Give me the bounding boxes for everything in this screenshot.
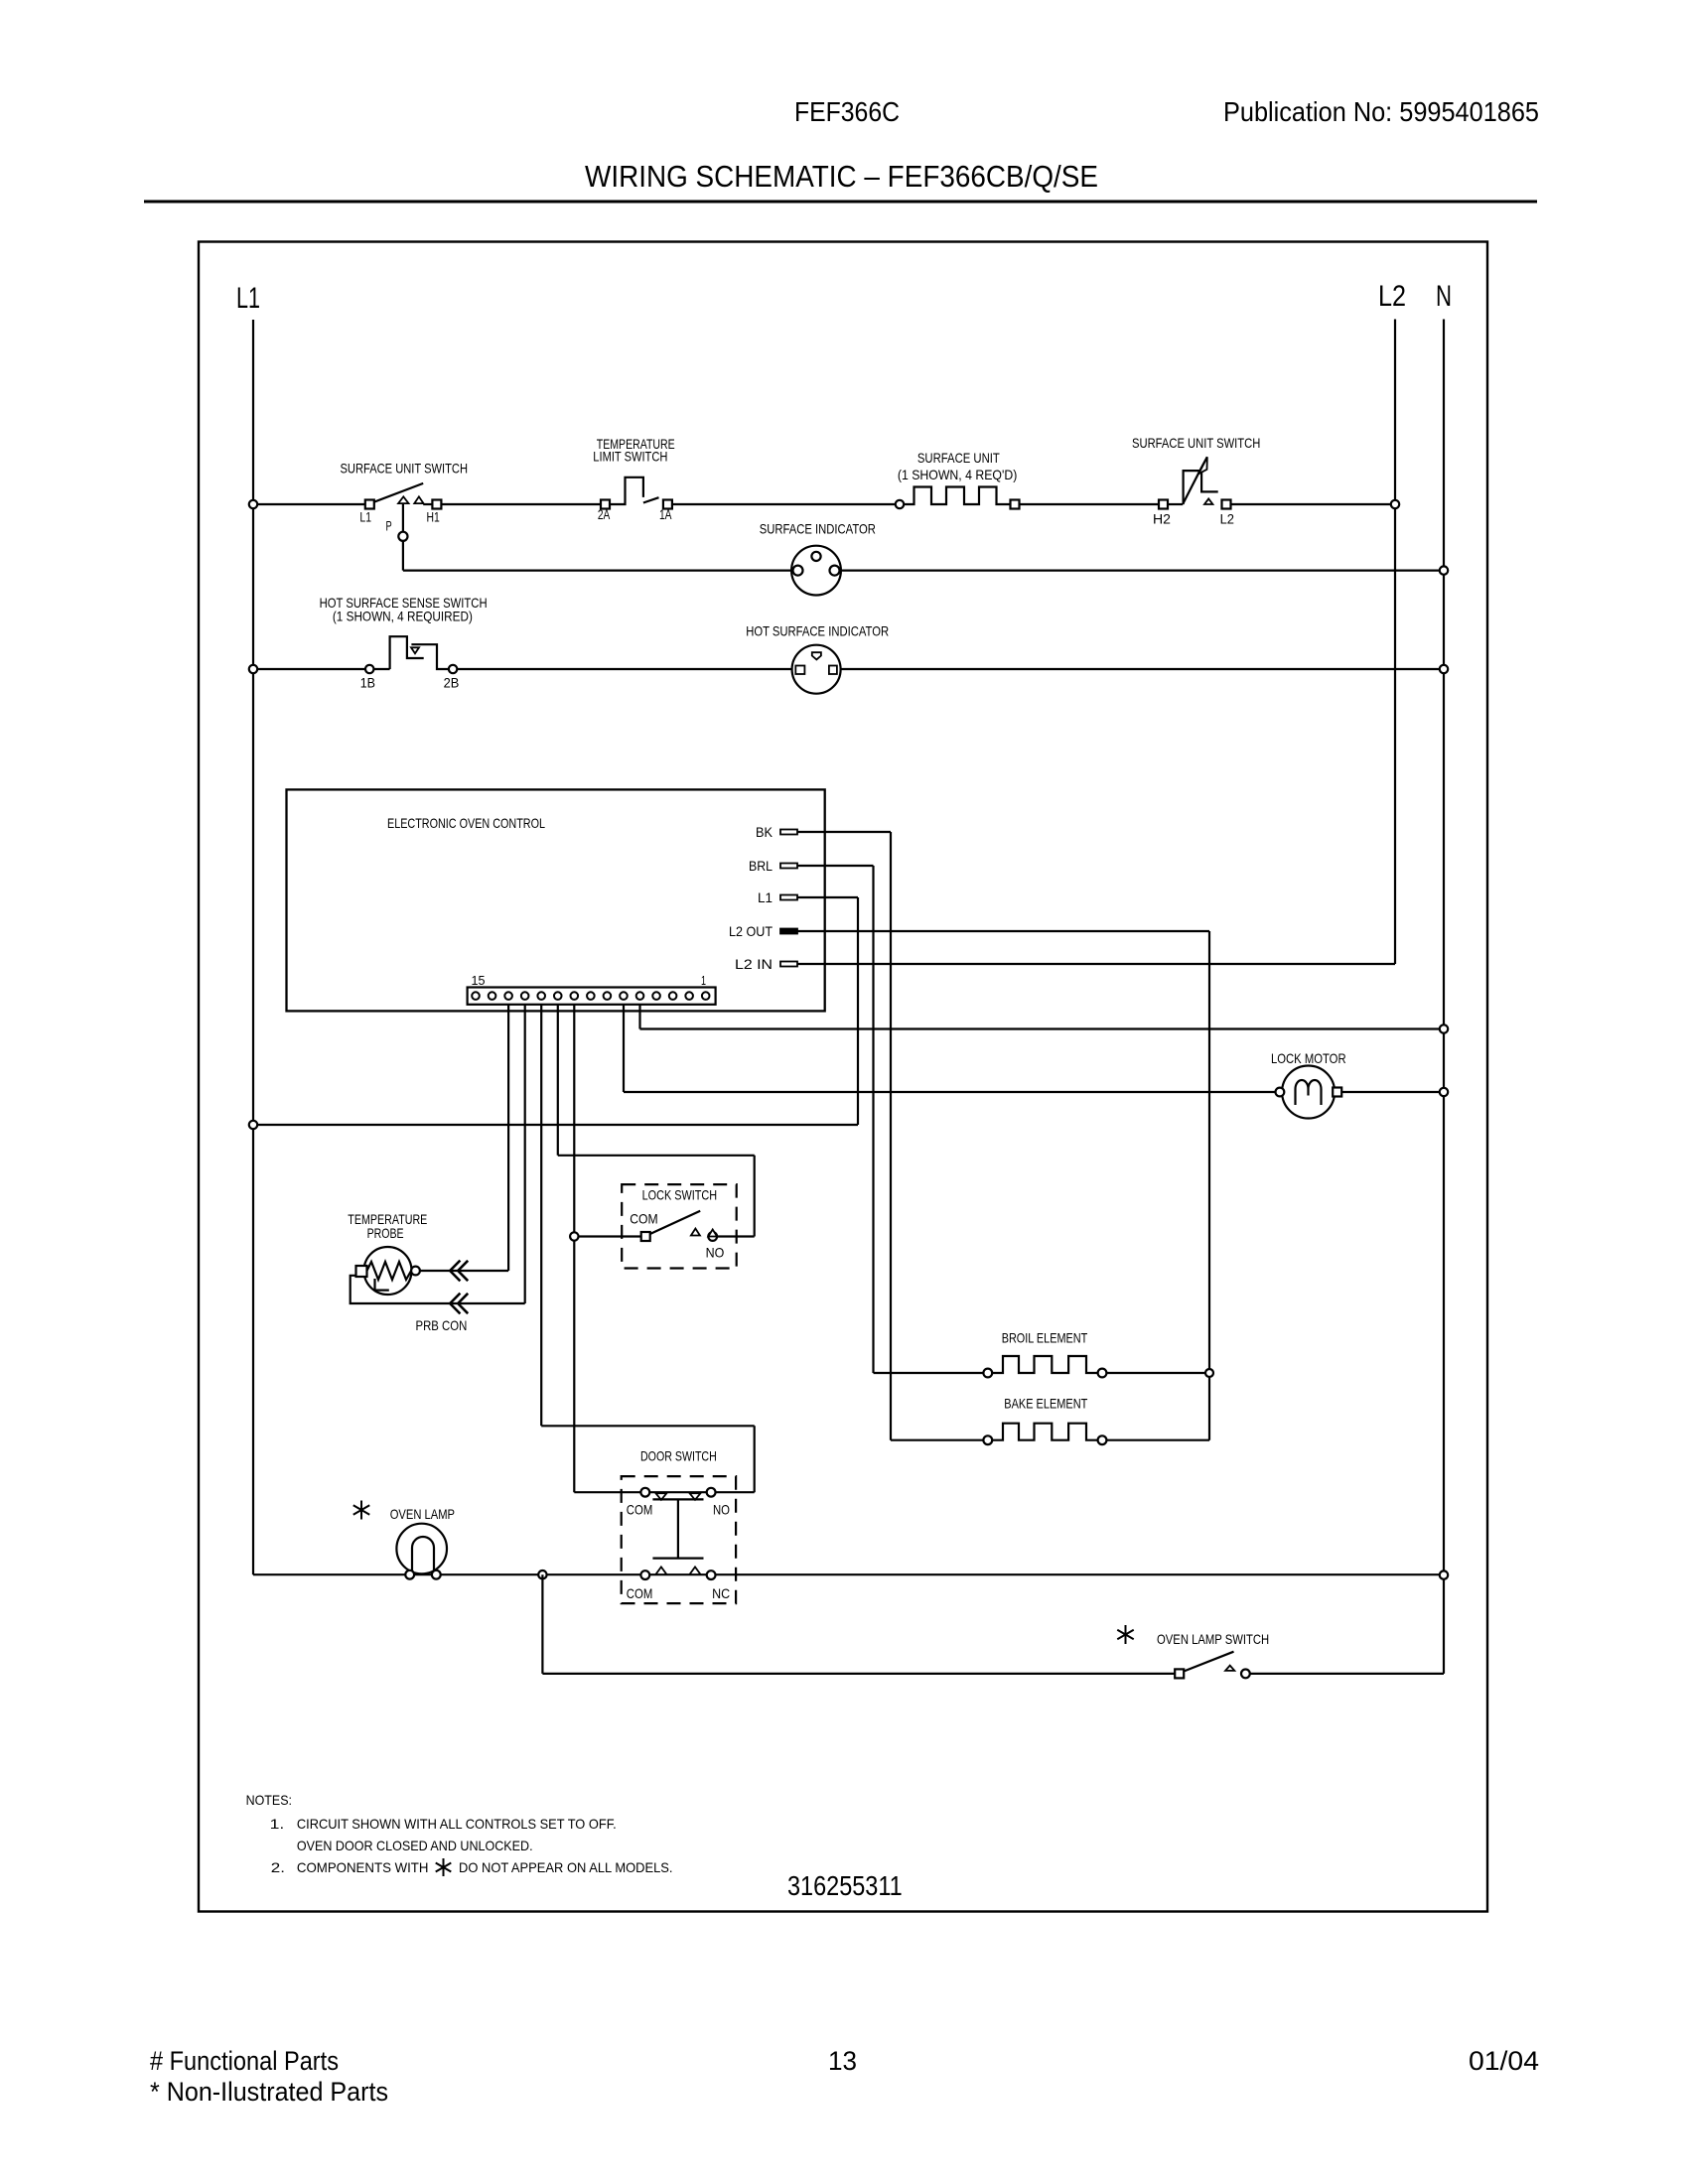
svg-text:BAKE ELEMENT: BAKE ELEMENT — [1004, 1396, 1087, 1412]
svg-text:H2: H2 — [1153, 511, 1171, 527]
svg-text:FEF366C: FEF366C — [794, 96, 900, 127]
svg-text:ELECTRONIC OVEN CONTROL: ELECTRONIC OVEN CONTROL — [387, 815, 545, 831]
svg-text:BRL: BRL — [749, 858, 773, 874]
svg-text:(1 SHOWN, 4 REQ'D): (1 SHOWN, 4 REQ'D) — [898, 467, 1017, 482]
svg-text:PRB CON: PRB CON — [416, 1317, 468, 1333]
svg-text:COM: COM — [627, 1585, 653, 1601]
svg-text:L1: L1 — [236, 282, 260, 315]
svg-text:1B: 1B — [360, 674, 375, 690]
svg-text:01/04: 01/04 — [1469, 2046, 1539, 2076]
svg-text:COMPONENTS WITH: COMPONENTS WITH — [297, 1859, 429, 1875]
svg-text:SURFACE UNIT SWITCH: SURFACE UNIT SWITCH — [341, 461, 469, 477]
svg-text:SURFACE INDICATOR: SURFACE INDICATOR — [760, 521, 876, 537]
svg-text:NC: NC — [712, 1585, 730, 1601]
svg-text:316255311: 316255311 — [787, 1870, 903, 1901]
svg-text:HOT SURFACE INDICATOR: HOT SURFACE INDICATOR — [746, 623, 889, 639]
svg-text:N: N — [1436, 280, 1452, 313]
svg-text:SURFACE UNIT SWITCH: SURFACE UNIT SWITCH — [1132, 435, 1260, 451]
svg-text:1.: 1. — [270, 1816, 285, 1832]
svg-text:COM: COM — [630, 1211, 657, 1227]
svg-text:H1: H1 — [427, 508, 440, 524]
svg-text:COM: COM — [627, 1502, 653, 1518]
svg-text:1: 1 — [701, 973, 706, 988]
svg-text:P: P — [386, 518, 392, 534]
svg-text:L1: L1 — [359, 508, 371, 524]
svg-text:WIRING SCHEMATIC – FEF366CB/Q/: WIRING SCHEMATIC – FEF366CB/Q/SE — [585, 159, 1098, 194]
svg-text:L2: L2 — [1220, 511, 1235, 527]
svg-text:BK: BK — [756, 824, 774, 840]
svg-text:2B: 2B — [444, 674, 460, 690]
svg-text:L2 IN: L2 IN — [735, 956, 773, 972]
svg-text:SURFACE UNIT: SURFACE UNIT — [917, 450, 1000, 466]
svg-text:13: 13 — [828, 2046, 857, 2076]
svg-text:2.: 2. — [271, 1859, 285, 1875]
svg-text:* Non-Ilustrated Parts: * Non-Ilustrated Parts — [150, 2077, 388, 2107]
svg-text:# Functional Parts: # Functional Parts — [150, 2046, 339, 2076]
svg-text:OVEN LAMP: OVEN LAMP — [390, 1506, 455, 1522]
svg-text:NO: NO — [713, 1502, 730, 1518]
svg-text:(1 SHOWN, 4 REQUIRED): (1 SHOWN, 4 REQUIRED) — [333, 609, 473, 624]
svg-text:L2: L2 — [1378, 280, 1406, 313]
svg-text:OVEN DOOR CLOSED AND UNLOCKED.: OVEN DOOR CLOSED AND UNLOCKED. — [297, 1838, 533, 1853]
svg-text:BROIL ELEMENT: BROIL ELEMENT — [1002, 1330, 1088, 1346]
svg-text:Publication No: 5995401865: Publication No: 5995401865 — [1223, 96, 1539, 127]
svg-text:PROBE: PROBE — [367, 1225, 404, 1241]
svg-text:LOCK SWITCH: LOCK SWITCH — [642, 1187, 718, 1203]
svg-text:NO: NO — [706, 1245, 725, 1261]
svg-text:DOOR SWITCH: DOOR SWITCH — [640, 1448, 717, 1464]
svg-text:15: 15 — [472, 973, 486, 988]
svg-text:2A: 2A — [598, 506, 611, 522]
svg-text:L2 OUT: L2 OUT — [729, 923, 773, 939]
svg-text:DO NOT APPEAR ON ALL MODELS.: DO NOT APPEAR ON ALL MODELS. — [459, 1859, 673, 1875]
svg-text:1A: 1A — [659, 506, 672, 522]
svg-text:LIMIT SWITCH: LIMIT SWITCH — [593, 449, 667, 465]
svg-text:OVEN LAMP SWITCH: OVEN LAMP SWITCH — [1157, 1631, 1269, 1647]
svg-text:CIRCUIT SHOWN WITH ALL CONTROL: CIRCUIT SHOWN WITH ALL CONTROLS SET TO O… — [297, 1816, 617, 1832]
svg-text:NOTES:: NOTES: — [246, 1792, 292, 1808]
svg-text:L1: L1 — [758, 889, 773, 905]
svg-text:LOCK MOTOR: LOCK MOTOR — [1271, 1050, 1346, 1066]
